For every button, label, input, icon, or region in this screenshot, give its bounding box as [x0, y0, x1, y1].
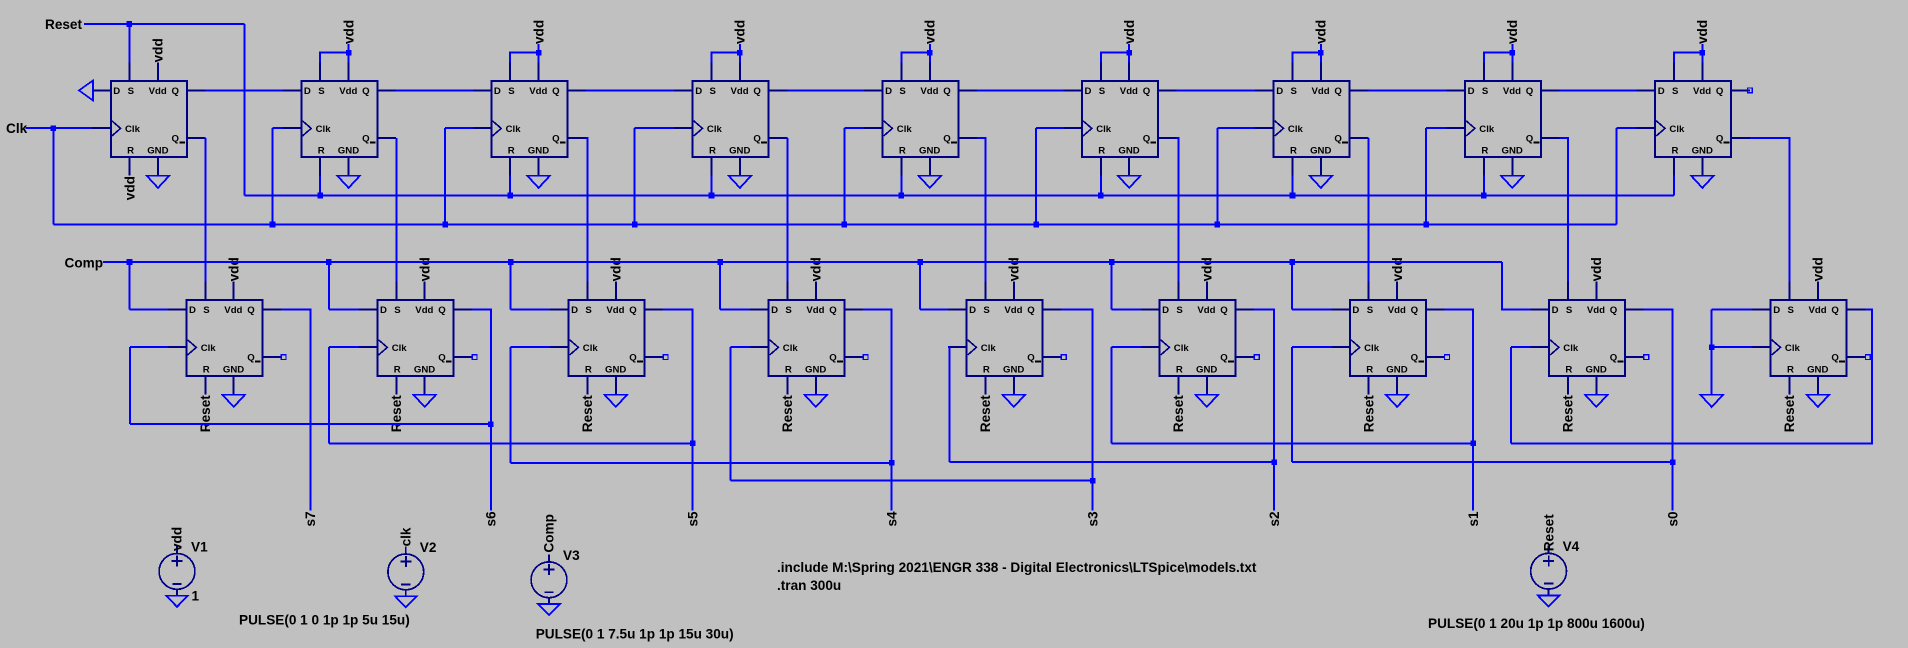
svg-text:GND: GND: [729, 146, 750, 157]
svg-text:D: D: [571, 305, 578, 316]
wire: [1750, 138, 1790, 281]
svg-text:R: R: [318, 146, 325, 157]
svg-text:PULSE(0 1 7.5u 1p 1p 15u 30u): PULSE(0 1 7.5u 1p 1p 15u 30u): [536, 626, 734, 641]
wire: [1036, 127, 1063, 129]
wire: [635, 127, 675, 129]
wire: [843, 128, 845, 224]
wire: [731, 480, 1093, 482]
svg-text:R: R: [394, 365, 401, 376]
wire: [1560, 89, 1637, 91]
svg-text:vdd: vdd: [609, 257, 624, 281]
wire: [950, 461, 1275, 463]
svg-text:vdd: vdd: [923, 20, 938, 44]
svg-text:GND: GND: [1118, 146, 1139, 157]
junction: [842, 222, 848, 228]
junction: [632, 222, 638, 228]
svg-text:Clk: Clk: [1785, 343, 1801, 354]
svg-text:D: D: [113, 86, 120, 97]
svg-text:Vdd: Vdd: [1693, 86, 1711, 97]
wire: [1673, 176, 1675, 196]
svg-text:Clk: Clk: [897, 124, 913, 135]
svg-text:Clk: Clk: [583, 343, 599, 354]
flip-flop A5 (D flip-flop, top row bit 4): [864, 62, 977, 175]
svg-text:1: 1: [192, 588, 200, 603]
junction: [536, 50, 542, 56]
wire: [348, 44, 350, 62]
flip-flop A2 (D flip-flop, top row bit 7): [283, 62, 396, 175]
wire: [84, 23, 245, 25]
wire: [1100, 176, 1102, 196]
wire: [329, 442, 693, 444]
wire: [844, 127, 864, 129]
wire: [863, 309, 892, 510]
wire: [1712, 308, 1752, 310]
svg-text:.tran 300u: .tran 300u: [777, 578, 841, 593]
svg-text:GND: GND: [338, 146, 359, 157]
svg-text:vdd: vdd: [151, 38, 166, 62]
wire: [787, 89, 864, 91]
wire: [1368, 138, 1370, 281]
svg-text:D: D: [1468, 86, 1475, 97]
wire: [205, 89, 282, 91]
flip-flop A9 (D flip-flop, top row bit 0): [1637, 62, 1750, 175]
ground: [166, 596, 188, 607]
svg-text:PULSE(0 1 20u 1p 1p 800u 1600u: PULSE(0 1 20u 1p 1p 800u 1600u): [1428, 616, 1645, 631]
junction: [317, 193, 323, 199]
svg-text:R: R: [1290, 146, 1297, 157]
svg-text:vdd: vdd: [1811, 257, 1826, 281]
wire: [1560, 138, 1568, 281]
svg-text:s3: s3: [1085, 511, 1100, 527]
svg-text:vdd: vdd: [122, 176, 137, 200]
svg-text:Vdd: Vdd: [149, 86, 167, 97]
wire: [1128, 44, 1130, 62]
wire (B9 Q to B8 Clk): [1511, 309, 1872, 443]
wire: [53, 224, 1616, 226]
svg-text:Reset: Reset: [1782, 395, 1797, 432]
wire: [712, 53, 740, 63]
svg-text:s6: s6: [484, 511, 499, 527]
svg-text:D: D: [1658, 86, 1665, 97]
svg-text:Clk: Clk: [783, 343, 799, 354]
svg-text:Q: Q: [629, 305, 637, 316]
wire: [1035, 128, 1037, 224]
wire: [919, 262, 921, 309]
ground: [413, 395, 436, 407]
wire: [320, 53, 348, 63]
svg-text:vdd: vdd: [531, 20, 546, 44]
svg-text:vdd: vdd: [1122, 20, 1137, 44]
svg-text:vdd: vdd: [1589, 257, 1604, 281]
svg-text:Q: Q: [438, 352, 446, 363]
svg-text:Q: Q: [753, 86, 761, 97]
wire: [510, 53, 538, 63]
flip-flop B8 (output latch, bottom row): [1531, 281, 1644, 394]
wire: [1425, 128, 1427, 224]
wire: [509, 176, 511, 196]
unconnected pin marker: [1748, 88, 1753, 93]
wire: [130, 346, 168, 348]
ground: [1807, 395, 1830, 407]
junction: [508, 259, 514, 265]
wire: [129, 262, 131, 309]
svg-text:Q: Q: [552, 86, 560, 97]
svg-text:GND: GND: [1692, 146, 1713, 157]
svg-text:S: S: [710, 86, 717, 97]
wire: [1111, 262, 1113, 309]
voltage source V1: [159, 546, 195, 596]
unconnected pin marker: [472, 355, 477, 360]
wire: [444, 128, 446, 224]
svg-text:Q: Q: [753, 133, 761, 144]
svg-text:Clk: Clk: [707, 124, 723, 135]
svg-text:D: D: [695, 86, 702, 97]
ground: [1310, 176, 1333, 188]
wire: [272, 128, 274, 224]
junction: [709, 193, 715, 199]
wire: [1061, 309, 1092, 510]
svg-text:vdd: vdd: [170, 527, 185, 551]
wire: [128, 24, 130, 62]
svg-text:R: R: [899, 146, 906, 157]
svg-text:Q: Q: [1716, 86, 1724, 97]
svg-text:Vdd: Vdd: [224, 305, 242, 316]
flip-flop B9 (output latch, bottom row): [1752, 281, 1865, 394]
svg-text:S: S: [394, 305, 401, 316]
junction: [1033, 222, 1039, 228]
flip-flop A7 (D flip-flop, top row bit 2): [1255, 62, 1368, 175]
svg-text:S: S: [1099, 86, 1106, 97]
wire: [786, 138, 788, 281]
wire: [1617, 127, 1637, 129]
wire: [1101, 53, 1129, 63]
svg-text:Q: Q: [247, 352, 255, 363]
wire: [1292, 176, 1294, 196]
svg-text:D: D: [1773, 305, 1780, 316]
svg-text:Q: Q: [438, 305, 446, 316]
svg-text:Q: Q: [1027, 352, 1035, 363]
ground: [1196, 395, 1219, 407]
wire: [1502, 262, 1531, 309]
svg-text:s7: s7: [303, 511, 318, 526]
ground: [538, 604, 560, 615]
wire: [1320, 44, 1322, 62]
junction: [1098, 193, 1104, 199]
wire: [711, 176, 713, 196]
wire: [1291, 262, 1293, 309]
svg-text:Vdd: Vdd: [1587, 305, 1605, 316]
svg-text:D: D: [969, 305, 976, 316]
wire: [1711, 347, 1713, 395]
wire: [920, 308, 948, 310]
svg-text:Q: Q: [1526, 86, 1534, 97]
svg-text:GND: GND: [1586, 365, 1607, 376]
svg-text:Q: Q: [247, 305, 255, 316]
svg-text:R: R: [127, 146, 134, 157]
wire: [1292, 308, 1331, 310]
svg-text:Vdd: Vdd: [529, 86, 547, 97]
svg-text:Vdd: Vdd: [1503, 86, 1521, 97]
svg-text:Vdd: Vdd: [1004, 305, 1022, 316]
svg-text:s2: s2: [1267, 511, 1282, 527]
svg-text:R: R: [585, 365, 592, 376]
wire: [719, 262, 721, 309]
svg-text:PULSE(0 1 0 1p 1p 5u 15u): PULSE(0 1 0 1p 1p 5u 15u): [239, 613, 410, 628]
svg-text:Q: Q: [1526, 133, 1534, 144]
wire: [26, 127, 93, 129]
svg-text:vdd: vdd: [1505, 20, 1520, 44]
junction: [1126, 50, 1132, 56]
wire: [1111, 347, 1113, 443]
svg-text:V4: V4: [1563, 539, 1580, 554]
junction: [127, 21, 133, 27]
ground: [222, 395, 245, 407]
wire: [929, 44, 931, 62]
ground: [1386, 395, 1409, 407]
svg-text:s4: s4: [884, 511, 899, 527]
svg-text:V3: V3: [563, 548, 580, 563]
junction: [737, 50, 743, 56]
wire: [329, 346, 359, 348]
ground: [1585, 395, 1608, 407]
ground: [337, 176, 360, 188]
ground: [605, 395, 628, 407]
wire: [129, 347, 131, 424]
svg-text:Clk: Clk: [316, 124, 332, 135]
flip-flop A3 (D flip-flop, top row bit 6): [473, 62, 586, 175]
svg-text:vdd: vdd: [1007, 257, 1022, 281]
svg-text:Reset: Reset: [1561, 395, 1576, 432]
svg-text:Reset: Reset: [978, 395, 993, 432]
ground: [147, 176, 170, 188]
svg-text:Vdd: Vdd: [1388, 305, 1406, 316]
svg-text:vdd: vdd: [1390, 257, 1405, 281]
junction: [507, 193, 513, 199]
svg-text:Q: Q: [1143, 86, 1151, 97]
svg-text:Vdd: Vdd: [1197, 305, 1215, 316]
junction: [1510, 50, 1516, 56]
voltage source V2: [388, 546, 424, 596]
wire: [1368, 89, 1446, 91]
svg-text:vdd: vdd: [417, 257, 432, 281]
wire: [1291, 347, 1293, 462]
svg-text:GND: GND: [605, 365, 626, 376]
svg-text:Q: Q: [629, 352, 637, 363]
svg-text:Q: Q: [829, 305, 837, 316]
svg-text:D: D: [771, 305, 778, 316]
wire: [1177, 138, 1179, 281]
svg-text:vdd: vdd: [809, 257, 824, 281]
wire: [1483, 176, 1485, 196]
junction: [1109, 259, 1115, 265]
svg-text:S: S: [128, 86, 135, 97]
wire: [1426, 127, 1446, 129]
svg-text:Q: Q: [172, 86, 180, 97]
wire: [634, 128, 636, 224]
wire: [510, 262, 512, 309]
unconnected pin marker: [1061, 355, 1066, 360]
junction: [1709, 344, 1715, 350]
svg-text:S: S: [1566, 305, 1573, 316]
svg-text:Q: Q: [1334, 86, 1342, 97]
svg-text:s0: s0: [1665, 511, 1680, 526]
wire: [130, 423, 491, 425]
flip-flop A8 (D flip-flop, top row bit 1): [1447, 62, 1560, 175]
wire: [1674, 53, 1702, 63]
svg-text:Q: Q: [1143, 133, 1151, 144]
junction: [488, 421, 494, 427]
input arrow flag at A1 D input: [79, 81, 93, 101]
svg-text:V2: V2: [420, 540, 437, 555]
svg-text:Q: Q: [1716, 133, 1724, 144]
svg-text:Q: Q: [1411, 352, 1419, 363]
svg-text:Q: Q: [829, 352, 837, 363]
junction: [1215, 222, 1221, 228]
svg-text:R: R: [1098, 146, 1105, 157]
flip-flop A6 (D flip-flop, top row bit 3): [1063, 62, 1176, 175]
voltage source V4: [1531, 546, 1567, 596]
svg-text:Clk: Clk: [1174, 343, 1190, 354]
svg-text:S: S: [1367, 305, 1374, 316]
junction: [1670, 459, 1676, 465]
flip-flop B5 (output latch, bottom row): [948, 281, 1061, 394]
flip-flop B1 (output latch, bottom row): [168, 281, 281, 394]
junction: [1318, 50, 1324, 56]
wire: [948, 346, 950, 348]
svg-text:S: S: [318, 86, 325, 97]
flip-flop B3 (output latch, bottom row): [550, 281, 663, 394]
wire: [328, 262, 330, 309]
unconnected pin marker: [1644, 355, 1649, 360]
svg-text:Q: Q: [1831, 352, 1839, 363]
wire: [1292, 346, 1331, 348]
wire: [586, 138, 587, 281]
svg-text:Vdd: Vdd: [1312, 86, 1330, 97]
svg-text:R: R: [785, 365, 792, 376]
wire: [396, 89, 473, 91]
svg-text:R: R: [1672, 146, 1679, 157]
svg-text:clk: clk: [399, 527, 414, 546]
wire: [1712, 346, 1752, 348]
wire: [511, 346, 550, 348]
svg-text:D: D: [1352, 305, 1359, 316]
svg-text:R: R: [1366, 365, 1373, 376]
svg-text:S: S: [785, 305, 792, 316]
ground: [1003, 395, 1026, 407]
svg-text:D: D: [1552, 305, 1559, 316]
svg-text:D: D: [189, 305, 196, 316]
unconnected pin marker: [1254, 355, 1259, 360]
wire: [1445, 309, 1474, 510]
wire: [328, 347, 330, 443]
ground: [1538, 596, 1560, 607]
svg-text:GND: GND: [919, 146, 940, 157]
svg-text:R: R: [508, 146, 515, 157]
flip-flop B4 (output latch, bottom row): [750, 281, 863, 394]
wire: [949, 347, 951, 462]
wire: [1292, 461, 1672, 463]
ground: [919, 176, 942, 188]
svg-text:Clk: Clk: [125, 124, 141, 135]
wire: [663, 309, 692, 510]
svg-text:Clk: Clk: [1479, 124, 1495, 135]
svg-text:Clk: Clk: [981, 343, 997, 354]
svg-text:S: S: [585, 305, 592, 316]
svg-text:Q: Q: [1610, 305, 1618, 316]
wire: [538, 44, 540, 62]
svg-text:Clk: Clk: [392, 343, 408, 354]
svg-text:s5: s5: [685, 511, 700, 527]
junction: [1470, 441, 1476, 447]
junction: [1423, 222, 1429, 228]
unconnected pin marker: [1865, 355, 1870, 360]
wire: [730, 347, 732, 480]
wire: [244, 24, 246, 196]
svg-text:S: S: [1672, 86, 1679, 97]
svg-text:Reset: Reset: [198, 395, 213, 432]
svg-text:Clk: Clk: [1669, 124, 1685, 135]
svg-text:Comp: Comp: [65, 255, 104, 270]
svg-text:Reset: Reset: [1361, 395, 1376, 432]
wire: [445, 127, 473, 129]
wire: [1254, 309, 1274, 510]
flip-flop A4 (D flip-flop, top row bit 5): [674, 62, 787, 175]
svg-text:vdd: vdd: [1314, 20, 1329, 44]
wire: [1510, 347, 1512, 443]
wire: [511, 308, 550, 310]
wire: [52, 128, 54, 224]
svg-text:Reset: Reset: [780, 395, 795, 432]
junction: [1481, 193, 1487, 199]
svg-text:S: S: [508, 86, 515, 97]
svg-text:Clk: Clk: [6, 121, 28, 136]
ground: [805, 395, 828, 407]
svg-text:vdd: vdd: [733, 20, 748, 44]
svg-text:Q: Q: [1831, 305, 1839, 316]
svg-text:R: R: [1787, 365, 1794, 376]
junction: [270, 222, 276, 228]
svg-text:GND: GND: [414, 365, 435, 376]
wire: [245, 195, 1674, 197]
wire: [586, 89, 674, 91]
svg-text:Clk: Clk: [1288, 124, 1304, 135]
svg-text:Vdd: Vdd: [1809, 305, 1827, 316]
svg-text:Q: Q: [1411, 305, 1419, 316]
wire: [329, 308, 359, 310]
junction: [1700, 50, 1706, 56]
svg-text:S: S: [1291, 86, 1298, 97]
wire: [1711, 309, 1713, 347]
flip-flop B2 (output latch, bottom row): [359, 281, 472, 394]
svg-text:GND: GND: [1502, 146, 1523, 157]
svg-text:Q: Q: [362, 133, 370, 144]
svg-text:R: R: [1481, 146, 1488, 157]
wire: [1616, 128, 1618, 224]
svg-text:S: S: [983, 305, 990, 316]
wire: [900, 176, 902, 196]
svg-text:V1: V1: [191, 539, 208, 554]
wire: [901, 53, 929, 63]
wire: [977, 89, 1063, 91]
svg-text:D: D: [1162, 305, 1169, 316]
wire: [130, 308, 168, 310]
svg-text:Vdd: Vdd: [606, 305, 624, 316]
wire: [1644, 309, 1673, 510]
svg-text:Q: Q: [172, 133, 180, 144]
svg-text:Q: Q: [552, 133, 560, 144]
junction: [889, 460, 895, 466]
svg-text:Q: Q: [943, 86, 951, 97]
